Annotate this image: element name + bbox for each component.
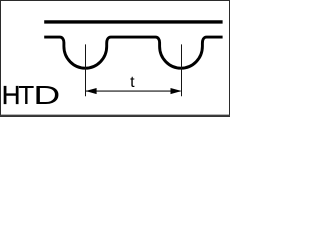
extension line left (tooth 1 centre) [85,44,87,96]
arrowhead right [171,88,182,94]
svg-text:t: t [130,74,135,91]
arrowhead left [86,88,97,94]
belt tooth profile (two HTD teeth) [44,37,222,68]
frame border [1,1,230,117]
dimension line [86,90,181,92]
svg-text:T: T [18,80,34,110]
extension line right (tooth 2 centre) [181,44,183,96]
frame bottom edge [0,115,230,117]
belt back thick line [44,20,222,23]
svg-text:D: D [33,80,60,109]
